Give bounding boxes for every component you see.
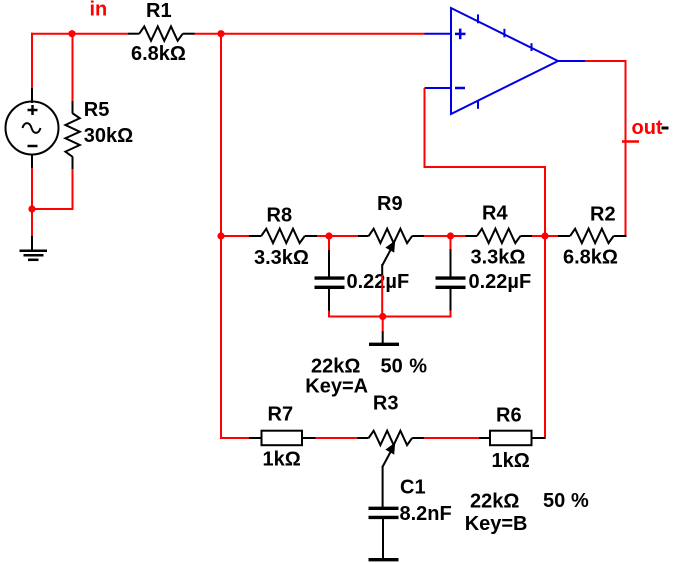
net label out	[632, 117, 663, 139]
wire rail to R8	[221, 235, 249, 237]
wire R3 to R6	[424, 437, 479, 439]
svg-text:6.8kΩ: 6.8kΩ	[563, 247, 618, 269]
potentiometer R9	[358, 229, 424, 266]
svg-text:R6: R6	[496, 405, 522, 427]
resistor R4	[465, 229, 532, 243]
svg-text:22kΩ: 22kΩ	[470, 490, 519, 512]
wire top from source to R1	[31, 33, 128, 89]
wire rail to R7	[221, 437, 249, 439]
net label in	[90, 0, 108, 21]
svg-text:R3: R3	[373, 393, 399, 415]
label R9	[377, 193, 403, 215]
label R8	[267, 204, 293, 226]
wire source bottom	[31, 154, 33, 237]
wire R1 to op-amp +in	[194, 33, 424, 35]
net out pin tick	[622, 140, 639, 143]
node junction cap2 top	[447, 232, 454, 239]
svg-text:50: 50	[381, 356, 403, 378]
resistor R7	[249, 431, 316, 446]
label C1	[400, 476, 426, 498]
ground (C1)	[369, 558, 399, 561]
wire feedback from -in	[424, 88, 547, 168]
label R7	[268, 404, 294, 426]
ground (filter mid)	[369, 343, 399, 346]
capacitor C-left	[315, 278, 345, 287]
value R4 3.3k	[471, 247, 526, 269]
resistor R1	[128, 26, 195, 40]
svg-text:%: %	[409, 356, 427, 378]
key R9	[305, 376, 368, 398]
wire node to R4	[451, 235, 466, 237]
svg-text:C1: C1	[400, 476, 426, 498]
wire cap1 top lead	[328, 236, 330, 277]
node junction R1-right rail top	[217, 30, 224, 37]
svg-text:R1: R1	[146, 0, 172, 22]
svg-text:in: in	[90, 0, 108, 21]
svg-text:R4: R4	[482, 203, 508, 225]
label R5	[84, 99, 110, 121]
wire node to R9	[329, 235, 358, 237]
label R4	[482, 203, 508, 225]
wire op-amp output	[585, 60, 627, 236]
wire source top lead	[31, 88, 33, 103]
svg-text:Key=A: Key=A	[305, 376, 368, 398]
resistor R5	[65, 113, 79, 157]
value R8 3.3k	[254, 247, 309, 269]
svg-text:3.3kΩ: 3.3kΩ	[254, 247, 309, 269]
wire C1 to ground	[382, 519, 384, 558]
wire R9 to node	[424, 235, 451, 237]
node junction right rail mid	[541, 232, 548, 239]
op-amp U1	[425, 8, 586, 114]
wire ground stub mid	[382, 317, 384, 344]
ground (source)	[20, 236, 48, 260]
svg-text:1kΩ: 1kΩ	[263, 449, 301, 471]
value C1 8.2nF	[400, 503, 452, 525]
net out dash	[662, 127, 669, 130]
resistor R6	[479, 431, 545, 446]
value R9 50%	[381, 356, 428, 378]
wire caps bottom link	[328, 316, 452, 318]
wire cap2 top lead	[450, 236, 452, 277]
label R3	[373, 393, 399, 415]
wire source-R5 bottom link	[31, 208, 74, 210]
svg-text:3.3kΩ: 3.3kΩ	[471, 247, 526, 269]
svg-text:1kΩ: 1kΩ	[492, 450, 530, 472]
node junction cap1 top	[325, 232, 332, 239]
wire rail to R2	[545, 235, 558, 237]
wire R9 wiper down	[381, 264, 383, 317]
value R3 22k	[470, 490, 519, 512]
label R6	[496, 405, 522, 427]
node junction in	[68, 30, 75, 37]
svg-text:R9: R9	[377, 193, 403, 215]
svg-text:%: %	[571, 490, 589, 512]
wire left rail	[220, 33, 222, 439]
wire R5 bottom	[72, 157, 74, 211]
svg-text:0.22µF: 0.22µF	[469, 271, 532, 293]
wire R3 wiper to C1	[382, 466, 384, 507]
svg-text:50: 50	[543, 490, 565, 512]
value R1 6.8k	[131, 43, 186, 65]
value R3 50%	[543, 490, 589, 512]
svg-text:8.2nF: 8.2nF	[400, 503, 452, 525]
value R6 1k	[492, 450, 530, 472]
wire R5 top	[72, 34, 74, 114]
value R7 1k	[263, 449, 301, 471]
svg-text:R8: R8	[267, 204, 293, 226]
wire R7 to R3	[316, 437, 358, 439]
svg-text:0.22µF: 0.22µF	[347, 271, 410, 293]
svg-text:R2: R2	[590, 204, 616, 226]
node junction source bottom	[28, 205, 35, 212]
label R2	[590, 204, 616, 226]
capacitor C1	[369, 508, 399, 517]
wire R8 to node	[317, 235, 329, 237]
node junction wiper-ground	[379, 313, 386, 320]
AC voltage source V1	[6, 102, 59, 155]
svg-text:R5: R5	[84, 99, 110, 121]
wire right rail	[544, 166, 546, 439]
svg-text:22kΩ: 22kΩ	[311, 356, 360, 378]
wire cap2 bottom lead	[450, 289, 452, 318]
wire cap1 bottom lead	[328, 289, 330, 318]
key R3	[465, 513, 528, 535]
wire R4 to rail	[532, 235, 545, 237]
label R1	[146, 0, 172, 22]
value R9 22k	[311, 356, 360, 378]
resistor R2	[558, 229, 627, 243]
svg-text:out: out	[632, 117, 663, 139]
node junction left rail mid	[217, 232, 224, 239]
capacitor C-right	[436, 278, 466, 287]
value R2 6.8k	[563, 247, 618, 269]
resistor R8	[249, 229, 317, 243]
svg-text:R7: R7	[268, 404, 294, 426]
value R5 30k	[84, 125, 133, 147]
svg-text:6.8kΩ: 6.8kΩ	[131, 43, 186, 65]
svg-text:30kΩ: 30kΩ	[84, 125, 133, 147]
potentiometer R3	[358, 431, 425, 468]
svg-text:Key=B: Key=B	[465, 513, 528, 535]
value C-left 0.22uF	[347, 271, 410, 293]
value C-right 0.22uF	[469, 271, 532, 293]
